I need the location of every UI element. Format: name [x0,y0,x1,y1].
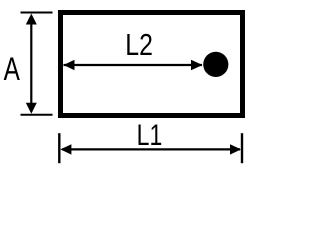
svg-text:L1: L1 [137,118,163,151]
svg-text:A: A [4,52,20,88]
svg-text:L2: L2 [125,27,153,61]
